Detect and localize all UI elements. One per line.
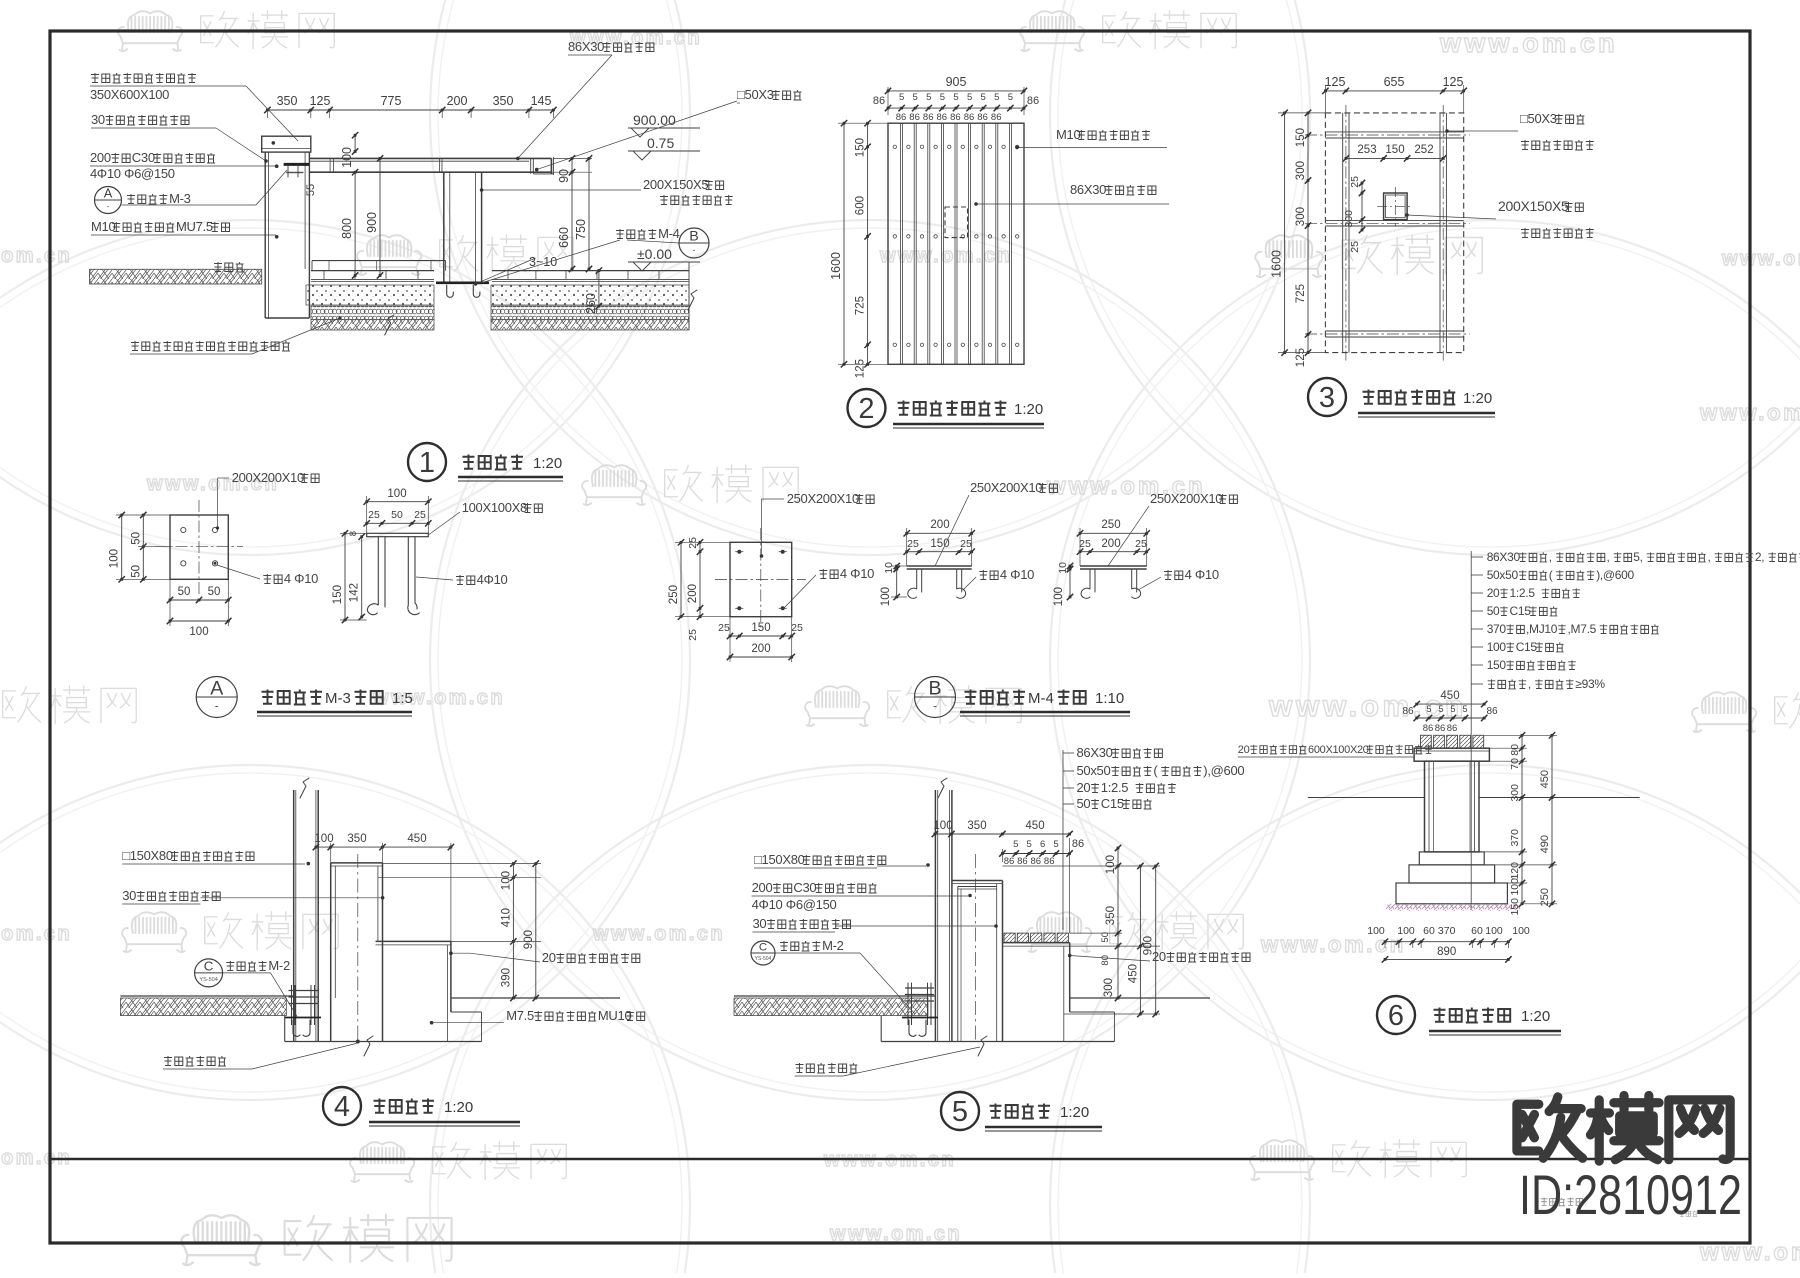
svg-text:450: 450 xyxy=(1539,770,1551,788)
svg-text:86: 86 xyxy=(1435,723,1446,734)
svg-text:A: A xyxy=(210,678,223,700)
svg-text:250: 250 xyxy=(1101,519,1120,531)
svg-text:70: 70 xyxy=(1509,758,1521,770)
seat slab xyxy=(1003,942,1070,944)
svg-text:4 Φ10: 4 Φ10 xyxy=(840,566,874,581)
svg-text:260: 260 xyxy=(584,293,598,314)
svg-text:MU10: MU10 xyxy=(598,1008,632,1023)
svg-text:50x50: 50x50 xyxy=(1077,763,1111,778)
svg-text:5: 5 xyxy=(913,92,918,103)
slat panel outline xyxy=(888,123,1024,364)
svg-text:86X30: 86X30 xyxy=(1070,182,1106,197)
label planting soil xyxy=(214,262,244,272)
svg-text:5,: 5, xyxy=(1633,550,1642,564)
svg-text:5: 5 xyxy=(1027,839,1032,850)
svg-text:450: 450 xyxy=(1440,690,1459,702)
embedded plate M-3 in wall xyxy=(284,163,309,166)
top dim 450 xyxy=(1417,703,1485,705)
svg-text:0.75: 0.75 xyxy=(647,135,674,151)
svg-text:25: 25 xyxy=(960,538,972,550)
svg-text:20: 20 xyxy=(1152,949,1166,964)
label anchor bars 4phi10 plan xyxy=(263,574,282,584)
slat joints xyxy=(900,123,902,364)
svg-text:100: 100 xyxy=(1487,640,1507,654)
svg-text:350: 350 xyxy=(1105,906,1117,925)
svg-text:125: 125 xyxy=(1295,348,1307,367)
plan dims left 50/50/100 xyxy=(142,515,144,579)
svg-text:,: , xyxy=(1708,550,1711,564)
svg-text:2: 2 xyxy=(858,393,874,425)
paver course xyxy=(311,270,434,272)
right dims 100/410/390 xyxy=(512,864,514,998)
svg-text:150: 150 xyxy=(1487,658,1507,672)
svg-text:1:5: 1:5 xyxy=(392,690,413,707)
svg-text:M-4: M-4 xyxy=(1028,690,1054,707)
anchor circles xyxy=(181,527,186,532)
svg-text:900.00: 900.00 xyxy=(633,112,676,128)
svg-text:C15: C15 xyxy=(1101,796,1124,811)
svg-text:600X100X20: 600X100X20 xyxy=(1308,744,1369,756)
svg-text:,: , xyxy=(1549,550,1552,564)
svg-text:125: 125 xyxy=(310,94,331,108)
svg-text:350: 350 xyxy=(347,833,366,845)
svg-text:5: 5 xyxy=(1450,704,1455,714)
planting soil hatch left xyxy=(90,269,262,284)
svg-text:890: 890 xyxy=(1437,946,1456,958)
svg-text:M10: M10 xyxy=(91,219,115,234)
svg-text:MU7.5: MU7.5 xyxy=(176,219,213,234)
svg-text:200: 200 xyxy=(752,880,773,895)
svg-text:25: 25 xyxy=(1349,176,1361,188)
svg-text:490: 490 xyxy=(1539,835,1551,853)
svg-text:6: 6 xyxy=(1388,1000,1404,1032)
svg-text:5: 5 xyxy=(1053,839,1058,850)
post base plate M-4 xyxy=(436,281,489,284)
bench wood slats xyxy=(1421,735,1432,748)
title A xyxy=(196,677,237,718)
svg-text:C30: C30 xyxy=(132,150,155,165)
svg-text:30: 30 xyxy=(753,916,767,931)
svg-text:-: - xyxy=(215,701,219,713)
footing outline xyxy=(880,1016,882,1042)
steel post xyxy=(934,790,936,1042)
gravel layer xyxy=(311,306,434,319)
svg-text:86: 86 xyxy=(937,112,948,123)
tamped soil hatch purple xyxy=(1386,904,1521,911)
svg-text:5: 5 xyxy=(1008,92,1013,103)
svg-text:C: C xyxy=(204,958,214,973)
left dims 150/600/725/125 xyxy=(867,123,869,364)
svg-text:450: 450 xyxy=(407,833,426,845)
svg-text:5: 5 xyxy=(1013,839,1018,850)
notes leader vertical xyxy=(1470,551,1472,910)
footing break lines xyxy=(385,315,394,335)
svg-text:86: 86 xyxy=(991,112,1002,123)
sheet title separator line xyxy=(50,1158,1750,1160)
svg-text:660: 660 xyxy=(557,227,571,248)
svg-text:25: 25 xyxy=(1079,538,1091,550)
svg-text:50: 50 xyxy=(1487,604,1500,618)
svg-text:725: 725 xyxy=(1295,284,1307,303)
label dark granite coping xyxy=(91,73,196,83)
svg-text:6: 6 xyxy=(1040,839,1045,850)
dashed table outline xyxy=(1325,113,1463,353)
title 5 xyxy=(941,1092,979,1130)
svg-text:50: 50 xyxy=(178,586,191,598)
svg-text:100: 100 xyxy=(880,587,892,606)
svg-text:4 Φ10: 4 Φ10 xyxy=(284,571,318,586)
svg-text:450: 450 xyxy=(1127,964,1139,983)
label anchor bar side xyxy=(456,575,475,585)
svg-text:5: 5 xyxy=(899,92,904,103)
svg-text:86X30: 86X30 xyxy=(1077,745,1113,760)
svg-text:1:20: 1:20 xyxy=(1521,1008,1550,1025)
wall centerline xyxy=(357,854,359,1042)
right dim 90/660/750 xyxy=(571,158,573,172)
svg-text:100: 100 xyxy=(1367,925,1385,937)
svg-text:1:20: 1:20 xyxy=(1060,1104,1089,1121)
top dim slat ticks xyxy=(888,107,1024,109)
frame tubes horizontal xyxy=(1325,131,1463,133)
svg-text:1:20: 1:20 xyxy=(533,455,562,472)
seat slab xyxy=(376,940,451,942)
notes leader vertical xyxy=(1062,750,1064,930)
svg-text:86: 86 xyxy=(977,112,988,123)
tiny sheet name text xyxy=(1541,1198,1583,1206)
left dim 1600 xyxy=(838,122,888,124)
site watermark big text OMW xyxy=(1517,1097,1583,1158)
svg-text:50: 50 xyxy=(130,532,142,545)
wall cap granite coping xyxy=(262,136,311,152)
anchor embedded part M-2 xyxy=(291,985,293,1025)
svg-text:ID:2810912: ID:2810912 xyxy=(1519,1163,1742,1226)
centerlines dash-dot xyxy=(1305,134,1470,136)
seat back wall xyxy=(331,862,383,864)
svg-text:2,: 2, xyxy=(1755,550,1764,564)
svg-text:200X200X10: 200X200X10 xyxy=(232,470,304,485)
svg-text:4: 4 xyxy=(334,1091,350,1123)
detail A side view plate xyxy=(367,533,429,536)
svg-text:905: 905 xyxy=(946,75,967,89)
beam end cap xyxy=(530,158,532,174)
internal dims 25/300/25 vertical xyxy=(1361,183,1363,230)
svg-text:86: 86 xyxy=(1486,706,1498,717)
steel column 200x150 xyxy=(1384,193,1408,220)
svg-text:100: 100 xyxy=(933,820,952,832)
top dim 100/350/450 xyxy=(316,846,451,848)
svg-text:□50X3: □50X3 xyxy=(737,87,774,102)
seat slab line above pavers xyxy=(312,260,446,262)
svg-text:M-3: M-3 xyxy=(169,191,191,206)
svg-text:145: 145 xyxy=(531,94,552,108)
svg-text:100: 100 xyxy=(387,488,406,500)
title 6 xyxy=(1377,996,1415,1034)
svg-text:60: 60 xyxy=(1471,925,1483,937)
svg-text:350: 350 xyxy=(967,820,986,832)
plan dims bottom 50/50/100 xyxy=(170,599,228,601)
svg-text:),@600: ),@600 xyxy=(1203,763,1244,778)
svg-text:C15: C15 xyxy=(1516,640,1538,654)
anchor J bars side xyxy=(367,537,385,615)
svg-text:1:20: 1:20 xyxy=(1463,390,1492,407)
bench cap slab xyxy=(1414,748,1489,761)
svg-text:90: 90 xyxy=(557,169,571,183)
svg-text:A: A xyxy=(104,186,113,201)
svg-text:,: , xyxy=(1607,550,1610,564)
svg-text:100: 100 xyxy=(500,871,512,890)
svg-text:5: 5 xyxy=(940,92,945,103)
svg-text:25: 25 xyxy=(687,537,699,549)
right dim stack inner xyxy=(1521,735,1523,904)
right dims 250 / 25 200 25 xyxy=(1080,532,1147,534)
concrete layer stipple xyxy=(306,285,434,305)
svg-text:250X200X10: 250X200X10 xyxy=(1150,491,1222,506)
svg-text:1:20: 1:20 xyxy=(444,1099,473,1116)
svg-text:5: 5 xyxy=(1426,704,1431,714)
svg-text:□150X80: □150X80 xyxy=(754,852,805,867)
right dims 10/100 xyxy=(1069,566,1071,569)
svg-text:25: 25 xyxy=(687,629,699,641)
vertical dim 100 cap xyxy=(354,135,356,151)
bottom dim row 100/100/60/370/60/100/100 xyxy=(1385,941,1508,943)
svg-text:20: 20 xyxy=(1077,780,1091,795)
svg-text:4 Φ10: 4 Φ10 xyxy=(1185,567,1219,582)
svg-text:Φ10 Φ6@150: Φ10 Φ6@150 xyxy=(97,166,175,181)
svg-text:150: 150 xyxy=(1509,898,1521,916)
ground lines xyxy=(1308,797,1425,799)
svg-text:253: 253 xyxy=(1357,144,1376,156)
column dashed square xyxy=(945,207,968,238)
svg-text:120: 120 xyxy=(1509,862,1521,880)
middle dims 10/100 xyxy=(896,566,898,569)
plate centerlines xyxy=(155,546,243,548)
label foundation note bottom xyxy=(131,341,290,351)
svg-text:86: 86 xyxy=(1027,95,1039,107)
bench base xyxy=(1409,865,1495,883)
svg-text:YS-504: YS-504 xyxy=(199,977,217,983)
svg-text:142: 142 xyxy=(349,583,361,602)
svg-text:M-4: M-4 xyxy=(658,226,680,241)
svg-text:25: 25 xyxy=(791,622,803,634)
wall cap and wall xyxy=(952,880,1003,882)
svg-text:86: 86 xyxy=(1447,723,1458,734)
svg-text:725: 725 xyxy=(855,296,867,315)
svg-text:86: 86 xyxy=(1044,856,1055,867)
svg-text:86: 86 xyxy=(873,95,885,107)
svg-text:□50X3: □50X3 xyxy=(1520,111,1557,126)
svg-text:250: 250 xyxy=(668,585,680,604)
wall core inner rect xyxy=(958,886,997,888)
svg-text:1600: 1600 xyxy=(829,252,843,280)
slat dim row 86/5 xyxy=(1002,853,1069,855)
svg-text:100: 100 xyxy=(1105,855,1117,874)
svg-text:900: 900 xyxy=(365,212,379,233)
label foundation note xyxy=(796,1063,858,1073)
svg-text:1:2.5: 1:2.5 xyxy=(1101,780,1128,795)
svg-text:100: 100 xyxy=(1512,925,1530,937)
svg-text:150: 150 xyxy=(1295,128,1307,147)
svg-text:100X100X8: 100X100X8 xyxy=(462,500,527,515)
svg-text:900: 900 xyxy=(523,930,535,949)
svg-text:150: 150 xyxy=(930,538,949,550)
svg-text:100: 100 xyxy=(1397,925,1415,937)
svg-text:3: 3 xyxy=(1319,382,1335,414)
svg-text:370: 370 xyxy=(1438,925,1456,937)
svg-text:M10: M10 xyxy=(1056,127,1080,142)
svg-text:350: 350 xyxy=(277,94,298,108)
svg-text:150: 150 xyxy=(751,622,770,634)
frame tubes vertical xyxy=(1342,113,1344,353)
svg-text:86: 86 xyxy=(1004,856,1015,867)
detail A embedded plate M-3 plan xyxy=(170,515,228,579)
ref circle C xyxy=(751,941,775,965)
svg-text:20: 20 xyxy=(1238,744,1250,756)
middle dims 200 / 25 150 25 xyxy=(907,532,972,534)
svg-text:www.om.cn: www.om.cn xyxy=(1721,248,1800,270)
dim 260 paving xyxy=(598,271,600,307)
title B xyxy=(915,677,956,718)
svg-text:252: 252 xyxy=(1414,144,1433,156)
seat wood slats hatched xyxy=(1004,933,1015,943)
svg-text:),@600: ),@600 xyxy=(1596,568,1634,582)
watermark large circles xyxy=(0,0,690,555)
svg-text:100: 100 xyxy=(1053,587,1065,606)
bench ledge xyxy=(1419,852,1484,865)
right dim stack outer 450/490/250 xyxy=(1551,735,1553,904)
bench base slab xyxy=(1396,883,1507,904)
svg-text:≥93%: ≥93% xyxy=(1575,677,1605,691)
svg-text:200X150X5: 200X150X5 xyxy=(1498,198,1569,214)
svg-text:5: 5 xyxy=(952,1096,968,1128)
title 4 xyxy=(323,1087,361,1125)
svg-text:25: 25 xyxy=(1135,538,1147,550)
svg-text:M-2: M-2 xyxy=(822,938,844,953)
svg-text:25: 25 xyxy=(1349,241,1361,253)
svg-text:5: 5 xyxy=(981,92,986,103)
svg-text:150: 150 xyxy=(1385,144,1404,156)
anchor embedded part M-2 xyxy=(907,983,909,1025)
svg-text:www.om.cn: www.om.cn xyxy=(592,923,725,945)
svg-text:5: 5 xyxy=(994,92,999,103)
label anchor right xyxy=(1164,570,1183,580)
vertical dim 800 xyxy=(354,172,356,275)
svg-text:86: 86 xyxy=(1423,723,1434,734)
top dim 100/350/450 xyxy=(935,833,1070,835)
svg-text:1:2.5: 1:2.5 xyxy=(1510,586,1536,600)
post anchor hooks xyxy=(447,285,454,297)
svg-text:350: 350 xyxy=(493,94,514,108)
svg-text:86: 86 xyxy=(1031,856,1042,867)
svg-text:125: 125 xyxy=(855,359,867,378)
svg-text:200: 200 xyxy=(1101,538,1120,550)
svg-text:20: 20 xyxy=(542,950,556,965)
top dimension line xyxy=(267,109,553,111)
svg-text:125: 125 xyxy=(1325,75,1346,89)
svg-text:50: 50 xyxy=(1077,796,1091,811)
svg-text:30: 30 xyxy=(91,112,105,127)
svg-text:86: 86 xyxy=(923,112,934,123)
svg-text:200: 200 xyxy=(447,94,468,108)
bottom dim 890 xyxy=(1385,958,1508,960)
left dims 150/300/300/725/125 xyxy=(1307,113,1309,353)
svg-text:150: 150 xyxy=(332,585,344,604)
svg-text:25: 25 xyxy=(718,622,730,634)
svg-text:4 Φ10: 4 Φ10 xyxy=(1000,567,1034,582)
title 1 xyxy=(408,443,446,481)
svg-text:□150X80: □150X80 xyxy=(122,848,173,863)
left dim 1600 xyxy=(1284,113,1286,353)
svg-text:100: 100 xyxy=(1509,878,1521,896)
label anchor 4phi10 plan xyxy=(819,569,838,579)
slat tick dim row xyxy=(1417,717,1485,719)
svg-text:50: 50 xyxy=(130,565,142,578)
svg-text:80: 80 xyxy=(1509,744,1521,756)
svg-text:10: 10 xyxy=(883,562,895,574)
svg-text:25: 25 xyxy=(907,538,919,550)
svg-text:750: 750 xyxy=(574,219,588,240)
svg-text:300: 300 xyxy=(1295,161,1307,180)
ref circle B embedded M-4 xyxy=(616,229,656,239)
title 3 xyxy=(1308,378,1346,416)
svg-text:86: 86 xyxy=(1017,856,1028,867)
footing outline xyxy=(284,1016,286,1042)
detail B right side view xyxy=(1080,565,1147,567)
svg-text:25: 25 xyxy=(414,509,426,521)
ref circle C embedded M-2 xyxy=(195,959,223,987)
svg-text:100: 100 xyxy=(189,626,208,638)
svg-text:86X30: 86X30 xyxy=(1487,550,1521,564)
top dim 905 xyxy=(887,87,889,115)
svg-text:,M7.5: ,M7.5 xyxy=(1568,622,1597,636)
svg-text:5: 5 xyxy=(953,92,958,103)
svg-text:,: , xyxy=(1528,677,1531,691)
svg-text:5: 5 xyxy=(1438,704,1443,714)
svg-text:300: 300 xyxy=(1509,784,1521,802)
svg-text:C15: C15 xyxy=(1510,604,1532,618)
svg-text:200: 200 xyxy=(90,150,111,165)
ref circle A embedded M-3 xyxy=(95,187,122,214)
svg-text:20: 20 xyxy=(1487,586,1500,600)
svg-text:1:20: 1:20 xyxy=(1014,401,1043,418)
vertical dim 900 xyxy=(379,158,381,275)
right dim 900 xyxy=(535,864,537,998)
svg-text:450: 450 xyxy=(1025,820,1044,832)
svg-text:(: ( xyxy=(1549,568,1553,582)
svg-text:200: 200 xyxy=(751,643,770,655)
svg-text:370: 370 xyxy=(1487,622,1507,636)
svg-text:YS-504: YS-504 xyxy=(755,956,772,962)
svg-text:300: 300 xyxy=(1295,207,1307,226)
svg-text:B: B xyxy=(929,678,942,700)
svg-text:C30: C30 xyxy=(793,880,816,895)
svg-text:200: 200 xyxy=(930,519,949,531)
label foundation structure note xyxy=(164,1056,226,1066)
svg-text:86X30: 86X30 xyxy=(568,39,604,54)
svg-text:1600: 1600 xyxy=(1270,250,1284,278)
label anchor middle xyxy=(979,570,998,580)
svg-text:,MJ10: ,MJ10 xyxy=(1526,622,1558,636)
svg-text:86: 86 xyxy=(1402,706,1414,717)
detail B embedded plate M-4 plan xyxy=(730,542,792,616)
svg-text:390: 390 xyxy=(500,968,512,987)
svg-text:200: 200 xyxy=(687,584,699,603)
svg-text:300: 300 xyxy=(1343,210,1355,228)
svg-text:86: 86 xyxy=(1072,838,1084,850)
svg-text:86: 86 xyxy=(950,112,961,123)
svg-text:1:10: 1:10 xyxy=(1095,690,1124,707)
svg-text:50: 50 xyxy=(391,509,403,521)
steel post 150x80 xyxy=(293,790,295,1042)
